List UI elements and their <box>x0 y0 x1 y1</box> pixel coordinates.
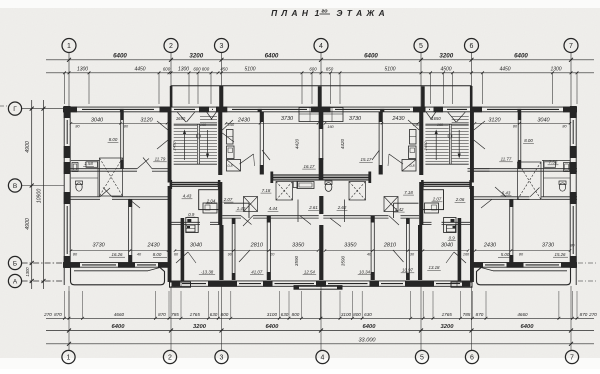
right wall outer <box>575 107 577 285</box>
ext line rowA <box>64 291 66 318</box>
tick bottom rowA <box>63 317 66 320</box>
svg-text:4: 4 <box>321 355 325 362</box>
tick row2 <box>188 71 191 74</box>
left wall pier <box>64 106 71 118</box>
axis А dash right <box>578 280 598 282</box>
left dim line outer <box>43 100 45 289</box>
svg-text:16.26: 16.26 <box>112 252 124 257</box>
vent shaft c4 <box>384 197 398 212</box>
svg-text:Б: Б <box>13 260 17 267</box>
staircase L east wall <box>218 107 222 175</box>
tick bottom rowB <box>319 329 323 333</box>
door leaf 22 <box>481 199 492 208</box>
door leaf 4 <box>103 188 112 197</box>
bottom wall end inner <box>471 266 578 268</box>
extension stub <box>339 73 341 104</box>
axis 6 extension line top <box>471 53 473 108</box>
door leaf 16 <box>474 121 485 130</box>
svg-text:1650: 1650 <box>431 116 441 121</box>
tick top rooms <box>569 122 571 124</box>
bottom wall mid inner <box>172 285 322 287</box>
svg-text:12.54: 12.54 <box>304 269 316 274</box>
ext line rowA <box>352 291 354 318</box>
svg-text:870: 870 <box>54 312 62 317</box>
closet box center top R <box>321 108 343 122</box>
svg-text:785: 785 <box>171 312 179 317</box>
svg-text:1300: 1300 <box>25 267 30 277</box>
tick bottom rowA <box>558 317 561 320</box>
tick row2 <box>320 71 323 74</box>
axis 2 extension bottom <box>170 286 172 351</box>
svg-text:7: 7 <box>569 43 573 50</box>
svg-text:41.07: 41.07 <box>251 269 263 274</box>
bath left flat walls <box>71 160 100 162</box>
sink right flat <box>564 163 570 172</box>
axis 7 extension bottom <box>570 286 572 351</box>
tick row2 <box>170 71 173 74</box>
wall V8 bottom rooms 3040/2810 <box>231 218 233 280</box>
bath right flat walls <box>542 160 570 162</box>
ext line rowA <box>168 291 170 318</box>
top wall pier <box>563 107 577 113</box>
tick row1 axis 4 <box>319 58 323 62</box>
wall H1 left flat <box>64 168 137 170</box>
svg-text:8.00: 8.00 <box>153 252 162 257</box>
door leaf 2 <box>143 158 152 169</box>
svg-text:2430: 2430 <box>391 116 405 122</box>
tick top rooms <box>166 122 168 124</box>
axis circle 1 top <box>62 39 76 53</box>
svg-text:10.34: 10.34 <box>359 269 371 274</box>
wall V6 bottom rooms 2810/3350 <box>266 216 268 281</box>
tick left inner <box>30 184 34 188</box>
ext line rowA <box>558 291 560 318</box>
wall V1 between rooms 3040/3120 <box>120 112 122 169</box>
axis circle 7 top <box>564 39 578 53</box>
tick row2 <box>551 71 554 74</box>
window glazing bottom mid <box>381 283 403 285</box>
svg-text:10900: 10900 <box>37 189 43 204</box>
window glazing top <box>447 108 467 110</box>
tick bottom rowA <box>576 317 579 320</box>
axis circle 6 top <box>465 39 479 53</box>
svg-text:0.8: 0.8 <box>228 164 233 168</box>
vestibule closet box R <box>423 190 444 210</box>
ext line rowA <box>422 291 424 318</box>
bottom dim line A <box>46 317 594 319</box>
window glazing bottom end <box>526 264 560 266</box>
window glazing bottom mid <box>275 283 315 285</box>
svg-text:800: 800 <box>202 66 210 71</box>
axis circle А left <box>8 274 21 287</box>
ext line rowA <box>472 291 474 318</box>
door leaf 17 <box>474 140 485 149</box>
bottom dim line C <box>46 343 594 345</box>
staircase R east wall <box>470 107 474 183</box>
kitchen door swing R <box>389 154 403 164</box>
tick bottom rowA <box>339 317 342 320</box>
tick row2 <box>429 71 432 74</box>
window glazing top <box>82 108 154 110</box>
tick row1 axis 1 <box>67 58 71 62</box>
toilet center R <box>325 183 332 192</box>
svg-text:5100: 5100 <box>384 66 395 72</box>
window glazing bottom end <box>82 264 116 266</box>
wall V6 mirror <box>370 216 372 281</box>
extension stub <box>443 73 445 104</box>
svg-text:0.9: 0.9 <box>188 212 195 217</box>
tick row1 axis 3 <box>220 58 224 62</box>
tick bottom rowA <box>229 317 232 320</box>
tick row2 <box>570 71 573 74</box>
wall H4 left bath zone <box>64 196 100 198</box>
svg-text:10.97: 10.97 <box>402 268 414 273</box>
bar under staircase L <box>172 182 219 186</box>
svg-text:3: 3 <box>220 43 224 50</box>
svg-text:3040: 3040 <box>91 117 104 123</box>
svg-text:5.00: 5.00 <box>501 252 510 257</box>
svg-text:450: 450 <box>220 66 228 71</box>
door leaf 12 <box>222 133 234 142</box>
svg-text:-13.38: -13.38 <box>201 269 214 274</box>
vestibule side wall L <box>181 218 185 281</box>
top wall pier <box>434 107 444 113</box>
door leaf 23 <box>239 250 250 262</box>
svg-text:270: 270 <box>43 312 52 317</box>
wall V7 bottom rooms 3730/2430 <box>128 199 130 263</box>
svg-text:270: 270 <box>588 312 597 317</box>
bottom mid wall pier <box>316 281 326 287</box>
corridor bar center <box>273 175 370 180</box>
right wall pier <box>570 146 577 158</box>
tick bottom rooms <box>324 249 326 251</box>
tick bottom rowA <box>168 317 171 320</box>
left wall pier <box>64 256 71 268</box>
right wall pier <box>570 162 577 174</box>
svg-text:1765: 1765 <box>442 312 453 317</box>
tub left flat <box>86 162 98 168</box>
top wall outer line <box>63 106 577 108</box>
svg-text:3350: 3350 <box>292 242 305 248</box>
tick bottom rowA <box>361 317 364 320</box>
ext line rowA <box>485 291 487 318</box>
bottom mid wall pier <box>370 281 380 287</box>
ext line rowA <box>432 291 434 318</box>
extension stub <box>576 73 578 104</box>
window glazing bottom mid <box>182 283 206 285</box>
door leaf 19 <box>372 150 380 160</box>
axis circle 1 bottom <box>62 350 75 363</box>
svg-text:П Л А Н: П Л А Н <box>271 8 309 18</box>
left wall pier <box>64 146 71 158</box>
left wall inner <box>69 112 71 263</box>
ext line rowA <box>82 291 84 318</box>
tick top rooms <box>518 122 520 124</box>
extension stub <box>311 73 313 104</box>
window glazing top <box>487 108 559 110</box>
svg-text:3730: 3730 <box>281 116 294 122</box>
vent shaft c1 <box>276 182 293 201</box>
door leaf 6 <box>241 216 252 225</box>
svg-text:7.18: 7.18 <box>404 190 413 195</box>
ext line rowA <box>339 291 341 318</box>
svg-text:3100: 3100 <box>341 312 352 317</box>
left wall glazing <box>66 120 68 144</box>
stoop center <box>294 286 342 290</box>
tick left inner <box>30 279 34 283</box>
kitchen box diag L <box>227 160 241 172</box>
svg-text:4.44: 4.44 <box>269 206 278 211</box>
bottom mid wall pier <box>462 281 471 287</box>
svg-text:1765: 1765 <box>190 312 201 317</box>
tick row2 <box>576 71 579 74</box>
svg-text:2.62: 2.62 <box>337 205 347 210</box>
tick row2 <box>220 71 223 74</box>
svg-text:630: 630 <box>364 312 372 317</box>
bay wall bar axis5 <box>421 86 425 107</box>
tick bottom rooms <box>167 249 169 251</box>
tick bottom rooms <box>129 249 131 251</box>
tick row2 <box>481 71 484 74</box>
svg-text:2: 2 <box>168 355 172 362</box>
axis 4 extension line top <box>320 53 322 108</box>
svg-text:1650: 1650 <box>176 116 186 121</box>
porch slab left inner edge <box>74 270 148 272</box>
door leaf 10 <box>389 216 399 225</box>
svg-text:1300: 1300 <box>550 66 561 72</box>
top wall pier <box>63 107 77 113</box>
tick row2 <box>63 71 66 74</box>
tick bottom rowA <box>571 317 574 320</box>
svg-text:160: 160 <box>200 123 207 127</box>
tick bottom rooms <box>422 249 424 251</box>
bottom end wall pier <box>158 262 172 268</box>
top wall inner line <box>63 111 577 113</box>
axis circle 5 top <box>414 39 428 53</box>
bay outline line <box>171 85 472 87</box>
tick bottom rooms <box>569 249 571 251</box>
svg-text:2450: 2450 <box>172 141 177 152</box>
vent shaft right flat <box>518 162 542 200</box>
svg-text:3120: 3120 <box>140 117 153 123</box>
tick bottom rowA <box>351 317 354 320</box>
svg-text:2.06: 2.06 <box>455 197 465 202</box>
bay wall bar axis6 <box>470 86 473 107</box>
axis 5 extension bottom <box>420 286 422 351</box>
wall H5 section3 <box>323 215 388 217</box>
tick top rooms <box>119 122 121 124</box>
vent shaft left flat <box>100 158 123 196</box>
svg-text:0.9: 0.9 <box>449 235 456 240</box>
svg-text:1: 1 <box>315 8 320 18</box>
tick row2 <box>470 71 473 74</box>
svg-text:33.000: 33.000 <box>358 338 376 344</box>
tick row2 <box>301 71 304 74</box>
bottom wall mid outer <box>172 280 322 282</box>
svg-text:600: 600 <box>163 66 171 71</box>
tick bottom rowA <box>471 317 474 320</box>
stoop left staircase <box>170 282 191 287</box>
vent shaft c2 <box>349 182 366 201</box>
window glazing top <box>429 108 430 110</box>
svg-text:5: 5 <box>420 355 424 362</box>
right wall pier <box>570 256 577 268</box>
toilet left flat <box>76 183 82 191</box>
tick row2 <box>442 71 445 74</box>
top rooms dim line <box>71 122 167 124</box>
svg-text:4.43: 4.43 <box>183 194 192 199</box>
left wall pier <box>64 192 71 204</box>
door leaf 18 <box>262 150 270 160</box>
svg-text:6.43: 6.43 <box>502 191 511 196</box>
staircase R west wall <box>419 107 423 175</box>
ext line rowA <box>460 291 462 318</box>
svg-text:8.00: 8.00 <box>109 137 118 142</box>
svg-text:3040: 3040 <box>441 242 454 248</box>
top wall pier <box>471 107 482 113</box>
svg-text:В: В <box>13 183 17 190</box>
svg-text:160: 160 <box>463 253 470 257</box>
top wall pier <box>311 107 331 113</box>
tick row1 axis 6 <box>470 58 474 62</box>
axis 7 extension line top <box>570 53 572 108</box>
vent shaft c3 <box>244 197 258 212</box>
svg-text:Г: Г <box>13 106 17 113</box>
svg-text:6400: 6400 <box>265 52 279 59</box>
tick row2 <box>210 71 213 74</box>
svg-text:16.17: 16.17 <box>304 164 316 169</box>
tick bottom rowB <box>569 329 573 333</box>
staircase L west wall <box>168 107 172 183</box>
right wall glazing <box>572 120 574 144</box>
svg-text:6400: 6400 <box>112 324 126 330</box>
bottom wall end outer <box>63 262 172 264</box>
top wall stub V1 <box>120 109 124 112</box>
tick bottom rowA <box>409 317 412 320</box>
svg-text:4660: 4660 <box>114 312 125 317</box>
tick bottom rowA <box>180 317 183 320</box>
svg-text:4900: 4900 <box>25 141 31 153</box>
svg-text:800: 800 <box>353 312 361 317</box>
wall H6 under staircase L <box>172 221 201 223</box>
chute box R <box>444 218 456 233</box>
svg-text:4500: 4500 <box>440 66 451 72</box>
svg-text:1.42: 1.42 <box>237 206 246 211</box>
center party wall axis 4 <box>319 107 324 129</box>
svg-text:3350: 3350 <box>344 242 357 248</box>
wall V1 mirror <box>517 112 519 169</box>
svg-text:А: А <box>13 278 18 285</box>
window glazing top <box>212 108 213 110</box>
extension stub <box>301 73 303 104</box>
top wall pier <box>160 107 171 113</box>
svg-text:2: 2 <box>169 43 173 50</box>
extension stub <box>552 73 554 104</box>
extension stub <box>482 73 484 104</box>
tick top rooms <box>324 122 326 124</box>
svg-text:3040: 3040 <box>537 117 550 123</box>
ext line rowA <box>217 291 219 318</box>
bottom wall end outer <box>471 262 578 264</box>
svg-text:1300: 1300 <box>77 66 88 72</box>
tick bottom rowA <box>81 317 84 320</box>
svg-text:3590: 3590 <box>294 255 299 266</box>
tick bottom rooms <box>268 249 270 251</box>
svg-text:4420: 4420 <box>340 138 345 149</box>
svg-text:630: 630 <box>281 312 289 317</box>
ext line rowA <box>278 291 280 318</box>
staircase L entry door swings <box>177 112 186 122</box>
right wall pier <box>570 192 577 204</box>
tick bottom rooms <box>70 249 72 251</box>
ext line rowA <box>288 291 290 318</box>
svg-text:600: 600 <box>193 66 201 71</box>
ext line rowA <box>320 291 322 318</box>
svg-text:4660: 4660 <box>517 312 528 317</box>
top dim line 1 <box>46 59 594 61</box>
axis В leader <box>22 185 64 187</box>
svg-text:3730: 3730 <box>92 242 105 248</box>
svg-text:785: 785 <box>463 312 471 317</box>
left dim line inner <box>31 100 33 289</box>
bottom wall mid inner <box>321 285 471 287</box>
staircase R entry door swings <box>457 112 466 122</box>
tick bottom rowA <box>207 317 210 320</box>
svg-text:6: 6 <box>470 355 474 362</box>
svg-text:5100: 5100 <box>244 66 255 72</box>
svg-text:1: 1 <box>67 43 71 50</box>
window glazing bottom end <box>485 264 505 266</box>
svg-text:6400: 6400 <box>113 52 127 59</box>
axis 5 extension line top <box>420 53 422 108</box>
svg-text:7.18: 7.18 <box>262 188 271 193</box>
axis Б dash right <box>578 262 598 264</box>
tick left outer <box>42 107 46 111</box>
ext line rowA <box>410 291 412 318</box>
tick top rooms <box>417 122 419 124</box>
svg-text:160: 160 <box>327 125 334 129</box>
door leaf 15 <box>157 140 168 149</box>
svg-text:3120: 3120 <box>488 117 501 123</box>
tick row2 <box>168 71 171 74</box>
tick row2 <box>420 71 423 74</box>
door leaf 11 <box>222 120 233 130</box>
vestibule side wall R <box>458 218 462 281</box>
extension stub <box>430 73 432 104</box>
bottom mid wall pier <box>172 281 181 287</box>
bottom wall end inner <box>63 266 172 268</box>
svg-text:2.07: 2.07 <box>223 197 233 202</box>
tick bottom rowA <box>432 317 435 320</box>
svg-text:6400: 6400 <box>364 52 378 59</box>
kitchen counter R1 <box>410 130 417 145</box>
svg-text:Э Т А Ж А: Э Т А Ж А <box>336 8 385 18</box>
vestibule closet box L <box>199 190 220 210</box>
closet box center top <box>299 108 321 122</box>
window glazing top <box>232 108 307 110</box>
axis 2 extension line top <box>170 53 172 108</box>
tick left outer <box>42 279 46 283</box>
svg-text:0.8: 0.8 <box>410 164 415 168</box>
svg-text:6: 6 <box>470 43 474 50</box>
bottom end wall pier <box>118 262 135 268</box>
axis Г dash left edge <box>0 105 8 107</box>
door leaf 8 <box>300 216 311 225</box>
tick row2 <box>158 71 161 74</box>
axis circle 2 top <box>164 39 178 53</box>
stoop right staircase <box>451 282 472 287</box>
small vent L <box>186 225 195 232</box>
